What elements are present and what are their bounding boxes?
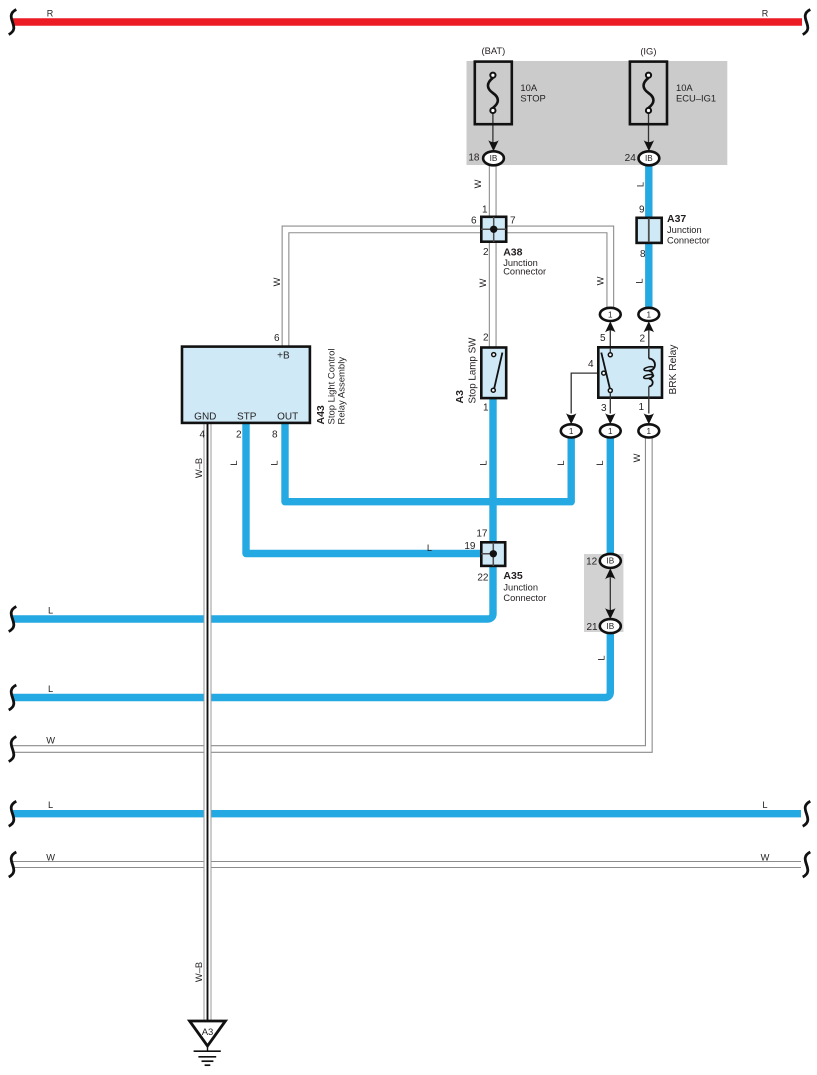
oval connector 1 below relay pin 4 bbox=[561, 424, 582, 437]
oval connector 24 IB bbox=[639, 151, 660, 165]
arrow up into oval pin 5 bbox=[605, 321, 615, 332]
svg-text:18: 18 bbox=[468, 152, 480, 163]
svg-text:IB: IB bbox=[490, 154, 498, 163]
squiggle left of wire L y813.7 bbox=[9, 801, 17, 826]
arrow down into oval below pin 3 bbox=[605, 413, 615, 424]
svg-text:IB: IB bbox=[645, 154, 653, 163]
arrow up into oval pin 2 bbox=[644, 321, 654, 332]
21 IB oval bbox=[600, 619, 621, 633]
arrow into 24 IB bbox=[644, 140, 654, 151]
arrow down above 21 IB bbox=[605, 608, 615, 619]
junction connector A35 box bbox=[481, 542, 505, 566]
squiggle left of wire L y619 bbox=[9, 607, 17, 632]
relay pin 4 wire to oval bbox=[571, 373, 597, 413]
svg-text:4: 4 bbox=[199, 430, 205, 441]
svg-text:3: 3 bbox=[601, 403, 607, 414]
svg-text:Connector: Connector bbox=[503, 267, 546, 277]
svg-text:Connector: Connector bbox=[667, 236, 710, 246]
ground bars bbox=[194, 1051, 221, 1065]
svg-text:12: 12 bbox=[586, 557, 598, 568]
svg-text:W: W bbox=[632, 453, 642, 462]
svg-text:8: 8 bbox=[272, 430, 278, 441]
svg-text:R: R bbox=[762, 8, 769, 18]
svg-text:9: 9 bbox=[639, 204, 645, 215]
fuse 10A ECU-IG1 box bbox=[630, 62, 667, 125]
svg-text:2: 2 bbox=[483, 247, 489, 258]
svg-text:6: 6 bbox=[471, 215, 477, 226]
fuse stem 18 bbox=[492, 112, 494, 143]
svg-text:22: 22 bbox=[477, 572, 489, 583]
svg-text:R: R bbox=[47, 8, 54, 18]
svg-text:1: 1 bbox=[638, 402, 644, 413]
svg-text:24: 24 bbox=[625, 153, 637, 164]
svg-text:Connector: Connector bbox=[503, 593, 546, 603]
ground stem bbox=[207, 1046, 209, 1051]
squiggle left of wire L y697 bbox=[9, 685, 17, 710]
svg-text:A3: A3 bbox=[202, 1027, 214, 1038]
svg-text:Relay Assembly: Relay Assembly bbox=[337, 357, 348, 425]
svg-text:8: 8 bbox=[640, 249, 646, 260]
12 IB oval bbox=[600, 554, 621, 568]
svg-text:L: L bbox=[479, 460, 489, 465]
svg-text:IB: IB bbox=[606, 557, 614, 566]
oval connector 1 below relay pin 1 bbox=[638, 424, 659, 437]
squiggle right of wire L y813.7 bbox=[803, 801, 811, 826]
ground A3 triangle bbox=[190, 1021, 226, 1046]
svg-text:W: W bbox=[596, 276, 606, 285]
svg-text:10A: 10A bbox=[676, 82, 693, 93]
squiggle right of wire W y864.5 bbox=[803, 852, 811, 877]
oval connector 1 above relay pin 2 bbox=[638, 308, 659, 321]
svg-text:A35: A35 bbox=[503, 570, 522, 582]
svg-text:1: 1 bbox=[569, 427, 574, 436]
stem oval to relay pin 2 bbox=[648, 331, 650, 348]
wire L A43 OUT pin 8 to BRK relay pin 4 oval bbox=[285, 423, 571, 502]
svg-text:L: L bbox=[635, 278, 645, 283]
wire L A43 STP pin 2 to A35 pin 19 bbox=[246, 423, 481, 554]
svg-text:10A: 10A bbox=[520, 82, 537, 93]
svg-text:2: 2 bbox=[639, 333, 645, 344]
relay contact (pins 5-3-4) bbox=[601, 348, 612, 414]
svg-text:OUT: OUT bbox=[277, 412, 298, 423]
svg-text:L: L bbox=[229, 460, 239, 465]
arrow down into oval below pin 4 bbox=[566, 413, 576, 424]
svg-text:A38: A38 bbox=[503, 246, 522, 258]
svg-text:L: L bbox=[427, 543, 432, 553]
fuse stem 24 bbox=[648, 112, 650, 143]
svg-text:L: L bbox=[48, 800, 53, 810]
svg-text:4: 4 bbox=[588, 359, 594, 370]
fuse 10A STOP box bbox=[475, 62, 512, 125]
svg-text:ECU–IG1: ECU–IG1 bbox=[676, 92, 716, 103]
wire W A38 pin 7 right and down to relay pin 5 oval bbox=[507, 229, 611, 309]
svg-text:IB: IB bbox=[606, 622, 614, 631]
svg-text:21: 21 bbox=[586, 622, 598, 633]
stem oval to relay pin 5 bbox=[609, 331, 611, 353]
wire L relay pin 3 oval down to 12 IB bbox=[607, 436, 614, 555]
svg-text:5: 5 bbox=[600, 333, 606, 344]
svg-text:L: L bbox=[595, 460, 605, 465]
svg-text:(IG): (IG) bbox=[640, 45, 656, 56]
BRK relay box bbox=[598, 347, 662, 397]
svg-text:W–B: W–B bbox=[194, 962, 204, 982]
svg-text:1: 1 bbox=[647, 310, 652, 319]
svg-text:STOP: STOP bbox=[520, 92, 545, 103]
svg-text:17: 17 bbox=[476, 529, 488, 540]
svg-text:BRK Relay: BRK Relay bbox=[668, 344, 679, 395]
wire L from fuse 24 IB to A37 to oval (vertical) bbox=[645, 162, 652, 309]
wire W A38 pin 2 down to stop lamp SW pin 2 bbox=[489, 241, 497, 348]
svg-text:L: L bbox=[556, 460, 566, 465]
svg-text:W: W bbox=[46, 736, 55, 746]
stem between IB arrows bbox=[609, 578, 611, 611]
svg-text:2: 2 bbox=[483, 333, 489, 344]
svg-text:1: 1 bbox=[608, 427, 613, 436]
squiggle left of wire R bbox=[9, 10, 17, 35]
svg-text:(BAT): (BAT) bbox=[482, 45, 506, 56]
junction block panel (gray) bbox=[467, 61, 728, 165]
wire W-B from A43 GND pin 4 down to ground A3 bbox=[204, 423, 212, 1021]
wire W A38 pin 6 left and down to A43 +B pin 6 bbox=[286, 229, 482, 347]
svg-text:6: 6 bbox=[274, 333, 280, 344]
wire L stop lamp SW pin 1 to A35 pin 17 bbox=[489, 398, 496, 542]
A43 stop light control relay assembly box bbox=[182, 347, 310, 423]
oval connector 1 above relay pin 5 bbox=[600, 308, 621, 321]
svg-text:W–B: W–B bbox=[194, 458, 204, 478]
svg-text:GND: GND bbox=[194, 412, 216, 423]
svg-text:STP: STP bbox=[237, 412, 257, 423]
svg-text:W: W bbox=[761, 853, 770, 863]
svg-text:1: 1 bbox=[483, 402, 489, 413]
svg-text:1: 1 bbox=[482, 204, 488, 215]
svg-text:1: 1 bbox=[608, 310, 613, 319]
svg-text:2: 2 bbox=[236, 430, 242, 441]
svg-text:L: L bbox=[270, 460, 280, 465]
svg-text:L: L bbox=[48, 684, 53, 694]
svg-text:W: W bbox=[272, 277, 282, 286]
svg-text:+B: +B bbox=[277, 351, 290, 362]
svg-text:Junction: Junction bbox=[503, 583, 538, 593]
fuse 10A STOP symbol bbox=[488, 73, 498, 114]
relay coil (pins 2-1) bbox=[643, 347, 655, 414]
squiggle right of wire R bbox=[803, 10, 811, 35]
svg-text:L: L bbox=[48, 606, 53, 616]
junction connector A37 box bbox=[637, 218, 662, 243]
wire L from 21 IB down, left to edge (long horizontal) bbox=[13, 631, 610, 698]
squiggle left of wire W y749 bbox=[9, 737, 17, 762]
svg-text:L: L bbox=[762, 800, 767, 810]
arrow down into oval below pin 1 bbox=[644, 413, 654, 424]
stop lamp SW box bbox=[481, 348, 506, 399]
svg-text:7: 7 bbox=[510, 215, 516, 226]
svg-text:W: W bbox=[46, 853, 55, 863]
svg-text:A37: A37 bbox=[667, 213, 686, 225]
wire W fuse 18 IB down to A38 pin 1 bbox=[489, 162, 497, 218]
svg-text:W: W bbox=[478, 278, 488, 287]
svg-text:A43: A43 bbox=[315, 405, 327, 424]
svg-text:L: L bbox=[636, 182, 646, 187]
arrow up below 12 IB bbox=[605, 568, 615, 579]
svg-text:W: W bbox=[473, 179, 483, 188]
fuse 10A ECU-IG1 symbol bbox=[644, 73, 654, 114]
svg-text:L: L bbox=[597, 655, 607, 660]
svg-text:19: 19 bbox=[464, 541, 476, 552]
junction connector A38 box bbox=[481, 217, 506, 242]
wire W relay pin 1 oval down and left to edge bbox=[13, 436, 649, 749]
wire L A35 pin 22 down, left to edge (long horizontal) bbox=[13, 566, 493, 619]
wire R (red power feed, top) bbox=[13, 18, 802, 25]
arrow into 18 IB bbox=[488, 140, 498, 151]
wire W full-width bottom bbox=[13, 861, 801, 868]
oval connector 18 IB bbox=[483, 151, 504, 165]
wire L full-width bottom bbox=[13, 810, 801, 817]
svg-text:Junction: Junction bbox=[667, 225, 702, 235]
svg-text:1: 1 bbox=[647, 427, 652, 436]
svg-text:Stop Lamp SW: Stop Lamp SW bbox=[468, 337, 479, 404]
connector panel IB (gray) bbox=[584, 554, 623, 632]
squiggle left of wire W y864.5 bbox=[9, 852, 17, 877]
stop lamp SW contacts bbox=[491, 353, 502, 393]
oval connector 1 below relay pin 3 bbox=[600, 424, 621, 437]
svg-text:A3: A3 bbox=[454, 390, 466, 404]
